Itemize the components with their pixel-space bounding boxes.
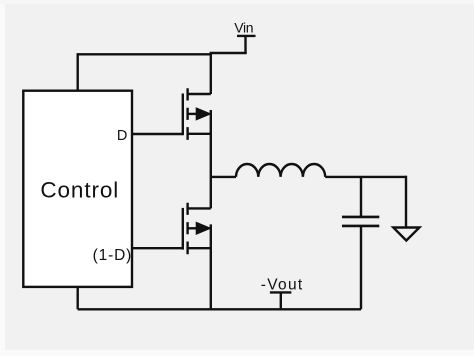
pin label D [117, 128, 127, 144]
transistor Q2 [183, 203, 211, 255]
wire: capacitor top lead [360, 177, 362, 217]
transistor Q1 [183, 88, 211, 140]
svg-text:(1-D): (1-D) [93, 247, 133, 264]
wire: top rail to Vin [77, 53, 247, 54]
ground [393, 228, 419, 241]
terminal Vin (bar) [237, 35, 256, 37]
control block label "Control" [40, 178, 119, 203]
wire: bottom rail [78, 308, 361, 310]
wire: Q1 source to Q2 drain (mid rail) [210, 110, 212, 208]
wire: inductor to output node [325, 176, 406, 178]
capacitor C1 [342, 217, 379, 226]
pin label (1-D) [93, 247, 133, 264]
terminal -Vout (bar) [270, 291, 292, 293]
wire: Vin terminal riser [244, 36, 246, 54]
wire: Q2 source to bottom rail [210, 224, 212, 309]
wire: ground riser [405, 176, 407, 228]
wire: control box top riser [76, 54, 78, 91]
node label -Vout [261, 277, 304, 294]
control block U1 [23, 91, 132, 287]
wire: capacitor bottom lead [360, 226, 362, 309]
wire: -Vout terminal riser [280, 293, 282, 310]
svg-text:Vin: Vin [234, 19, 253, 35]
wire: control box bottom riser [76, 287, 78, 309]
node label Vin [234, 19, 253, 35]
svg-text:-Vout: -Vout [261, 277, 304, 294]
wire: switch node to inductor [211, 176, 236, 178]
wire: gate (1-D) from control to Q2 [132, 247, 183, 249]
wire: gate D from control to Q1 [132, 133, 183, 135]
svg-text:Control: Control [40, 178, 119, 203]
wire: Q1 drain lead [210, 53, 212, 94]
svg-text:D: D [117, 128, 127, 144]
inductor L1 [236, 164, 325, 177]
